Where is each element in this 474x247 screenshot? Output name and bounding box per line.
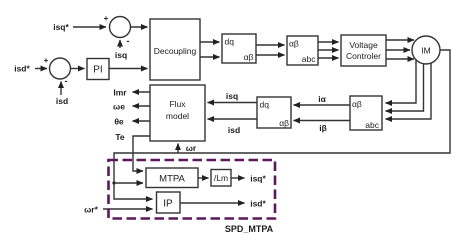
label SPD_MTPA <box>225 224 274 234</box>
wire dq-ab to ab-abc upper <box>256 44 285 46</box>
svg-text:isq*: isq* <box>53 22 69 32</box>
node isd* output label <box>250 199 266 209</box>
node wr label <box>186 143 197 153</box>
wire Lm to isq* output <box>231 177 245 179</box>
svg-text:Te: Te <box>115 132 125 142</box>
wire IM current sense phase b to ab-abc feedback <box>386 64 424 111</box>
svg-text:/Lm: /Lm <box>214 173 228 183</box>
node isq feedback label <box>226 91 238 101</box>
wire ab-abc feedback to dq feedback ibeta <box>294 120 351 122</box>
wire wr branch up to Flux model <box>177 144 179 154</box>
svg-text:Flux: Flux <box>169 99 186 109</box>
block alphabeta-to-dq feedback <box>257 97 291 128</box>
node isq label <box>115 50 127 60</box>
block PI <box>87 59 109 80</box>
node isd* label <box>14 64 30 74</box>
minus sign S2 <box>65 76 68 86</box>
svg-text:dq: dq <box>260 100 270 110</box>
block Flux model <box>150 85 205 141</box>
block Decoupling <box>150 19 200 80</box>
block MTPA <box>146 168 198 188</box>
wire dq-ab to ab-abc lower <box>256 54 285 56</box>
svg-text:isq: isq <box>226 91 238 101</box>
junction wr to MTPA <box>112 181 115 184</box>
node thetae label <box>114 117 124 127</box>
svg-text:iβ: iβ <box>319 123 327 133</box>
svg-text:dq: dq <box>225 37 235 47</box>
wire S1 to Decoupling <box>131 26 148 28</box>
svg-text:Imr: Imr <box>113 88 127 98</box>
svg-text:+: + <box>104 14 109 23</box>
wire Flux model output we <box>133 105 151 107</box>
svg-text:IP: IP <box>163 199 173 210</box>
block Voltage Controler <box>341 35 386 66</box>
svg-text:Voltage: Voltage <box>349 40 378 50</box>
node wr* label <box>84 205 98 215</box>
wire Decoupling to dq-ab upper <box>200 41 220 43</box>
wire MTPA to Lm <box>198 177 209 179</box>
svg-text:ωr: ωr <box>186 143 197 153</box>
plus sign S1 <box>104 14 109 23</box>
node Imr label <box>113 88 127 98</box>
svg-text:isd*: isd* <box>14 64 30 74</box>
svg-text:SPD_MTPA: SPD_MTPA <box>225 224 274 234</box>
svg-text:PI: PI <box>93 65 102 76</box>
motor IM <box>412 36 440 64</box>
node isq* output label <box>250 174 266 184</box>
svg-text:αβ: αβ <box>244 52 254 62</box>
summing junction S1 <box>110 17 131 38</box>
svg-text:-: - <box>65 76 68 86</box>
block divide by Lm <box>211 170 231 187</box>
svg-text:abc: abc <box>365 120 379 130</box>
wire ab-abc feedback to dq feedback ialpha <box>294 104 351 106</box>
wire isd* to summing junction S2 <box>35 68 47 70</box>
svg-text:MTPA: MTPA <box>159 174 185 185</box>
node ibeta label <box>319 123 327 133</box>
minus sign S1 <box>127 36 130 46</box>
wire IM current sense phase c to ab-abc feedback <box>386 63 432 119</box>
wire Flux model output Imr <box>133 91 151 93</box>
wire Voltage Controler to IM phase b <box>386 49 410 51</box>
wire ab-abc to Voltage Controler phase b <box>318 49 339 51</box>
wire IM current sense phase a to ab-abc feedback <box>386 60 417 103</box>
node isd feedback label <box>228 125 240 135</box>
block IP <box>157 192 181 213</box>
svg-text:αβ: αβ <box>289 39 299 49</box>
svg-text:Decoupling: Decoupling <box>154 46 197 56</box>
svg-text:isq: isq <box>115 50 127 60</box>
wire IP to isd* output <box>180 202 245 204</box>
svg-text:abc: abc <box>302 54 316 64</box>
wire dq feedback to Flux model isd <box>208 118 258 120</box>
svg-text:ωe: ωe <box>113 102 125 112</box>
node we label <box>113 102 125 112</box>
svg-text:iα: iα <box>318 94 326 104</box>
wire S2 to PI <box>71 68 85 70</box>
wire Decoupling to dq-ab lower <box>200 56 220 58</box>
block dq-to-alphabeta forward <box>222 34 256 63</box>
wire isd feedback stub into S2 <box>60 82 62 96</box>
wire PI to Decoupling <box>109 68 148 70</box>
block alphabeta-to-abc forward <box>287 36 318 65</box>
svg-text:model: model <box>166 111 189 121</box>
wire isq* to summing junction S1 <box>73 26 106 28</box>
svg-text:+: + <box>44 56 49 65</box>
wire wr* to IP <box>103 208 153 210</box>
boundary dashed box SPD_MTPA <box>109 160 276 219</box>
wire dq feedback to Flux model isq <box>208 102 258 104</box>
wire Te from Flux model to MTPA <box>133 136 150 171</box>
svg-text:αβ: αβ <box>352 99 362 109</box>
svg-text:isd: isd <box>56 96 68 106</box>
svg-text:θe: θe <box>114 117 124 127</box>
svg-text:-: - <box>127 36 130 46</box>
block alphabeta-to-abc feedback <box>350 96 382 130</box>
wire Voltage Controler to IM phase c <box>386 58 414 60</box>
svg-text:IM: IM <box>421 46 430 56</box>
node ialpha label <box>318 94 326 104</box>
node isd label <box>56 96 68 106</box>
wire ab-abc to Voltage Controler phase a <box>318 41 339 43</box>
wire speed feedback wr from IM <box>114 50 450 199</box>
wire isq feedback stub into S1 <box>119 40 121 48</box>
svg-text:isd*: isd* <box>250 199 266 209</box>
svg-text:αβ: αβ <box>279 118 289 128</box>
summing junction S2 <box>50 58 71 79</box>
wire wr branch to MTPA <box>114 182 143 184</box>
svg-text:isq*: isq* <box>250 174 266 184</box>
wire Flux model output thetae <box>133 120 151 122</box>
svg-text:ωr*: ωr* <box>84 205 98 215</box>
wire ab-abc to Voltage Controler phase c <box>318 57 339 59</box>
node Te label <box>115 132 125 142</box>
wire Voltage Controler to IM phase a <box>386 39 414 41</box>
plus sign S2 <box>44 56 49 65</box>
svg-text:Controler: Controler <box>346 51 381 61</box>
node isq* label <box>53 22 69 32</box>
svg-text:isd: isd <box>228 125 240 135</box>
